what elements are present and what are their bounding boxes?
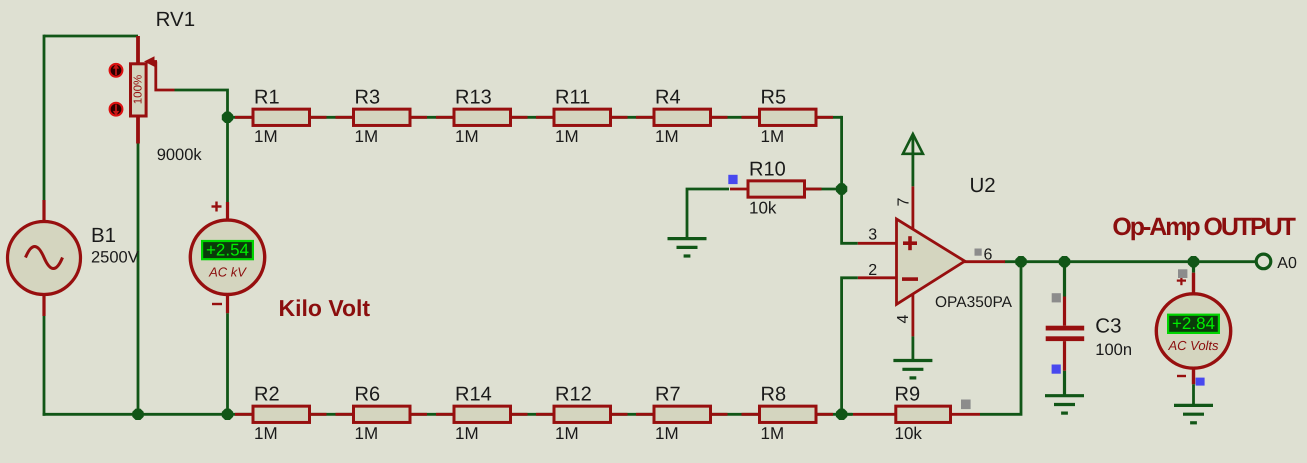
svg-text:R11: R11 [555, 87, 590, 109]
svg-text:R4: R4 [655, 87, 681, 109]
label U2 [970, 174, 996, 197]
value OPA350PA [935, 294, 1013, 311]
svg-text:10k: 10k [895, 424, 923, 443]
junction node RV1-rail [132, 409, 143, 420]
svg-text:1M: 1M [555, 127, 579, 146]
wire R9 left [842, 413, 853, 416]
svg-text:R14: R14 [455, 384, 492, 406]
pin number 7 [896, 197, 913, 206]
pin number 6 [984, 247, 993, 264]
wire top row base [228, 116, 842, 119]
svg-text:Kilo Volt: Kilo Volt [279, 295, 371, 321]
svg-text:1M: 1M [761, 424, 785, 443]
svg-text:R7: R7 [655, 384, 681, 406]
label A0 [1277, 255, 1297, 272]
op-amp minus input mark [902, 277, 918, 281]
wire R5 to R10 node [840, 116, 843, 189]
svg-text:9000k: 9000k [157, 146, 203, 164]
resistor R9 10k [853, 384, 980, 443]
wire C3 bottom [1063, 341, 1066, 396]
probe marker gray volt meter [1178, 269, 1187, 278]
svg-text:+2.84: +2.84 [1172, 314, 1215, 333]
wire kV meter bottom [226, 295, 229, 415]
svg-text:R6: R6 [355, 384, 381, 406]
ground below C3 [1045, 396, 1084, 413]
junction node C3 [1059, 256, 1070, 267]
svg-text:2: 2 [868, 262, 877, 279]
svg-text:R8: R8 [761, 384, 787, 406]
terminal A0 [1256, 254, 1271, 269]
probe marker blue C3 [1052, 365, 1061, 374]
svg-text:1M: 1M [254, 127, 278, 146]
probe marker gray R9 [961, 400, 971, 410]
label RV1 [156, 8, 196, 31]
resistor R2 1M [235, 384, 327, 443]
svg-text:2500V: 2500V [91, 249, 139, 267]
value 9000k [157, 146, 203, 164]
svg-text:3: 3 [868, 227, 877, 244]
resistor R5 1M [742, 87, 834, 146]
wire pin2 stub [858, 276, 897, 279]
resistor R7 1M [636, 384, 728, 443]
resistor R4 1M [636, 87, 728, 146]
svg-text:1M: 1M [655, 424, 679, 443]
wire volt meter bottom [1192, 369, 1195, 406]
svg-text:R9: R9 [895, 384, 921, 406]
potentiometer RV1 [131, 36, 147, 144]
volt meter plus sign [1177, 276, 1186, 285]
wire top rail [44, 35, 138, 200]
wire power stem [912, 136, 915, 186]
wire opamp V+ pin [912, 186, 915, 230]
resistor R12 1M [536, 384, 628, 443]
resistor R14 1M [436, 384, 528, 443]
svg-text:+2.54: +2.54 [206, 241, 249, 260]
label B1 [91, 224, 116, 247]
ground below R10 [668, 239, 707, 256]
op-amp U2 triangle [897, 219, 965, 304]
wire kV meter top [226, 117, 229, 220]
wire pin2 to bottom rail [842, 278, 858, 415]
label Kilo Volt [279, 295, 371, 321]
battery B1 AC source [8, 200, 81, 316]
wire volt meter top [1192, 262, 1195, 294]
volt meter minus sign [1177, 375, 1186, 377]
svg-text:RV1: RV1 [156, 8, 196, 31]
junction node wiper-R1 [222, 112, 233, 123]
junction node R5-R10-pin3 [836, 183, 847, 194]
pin number 4 [895, 314, 912, 323]
RV1 down button [110, 103, 123, 116]
wire R10 node to pin3 [842, 189, 858, 243]
RV1 up button [110, 64, 123, 77]
svg-text:Op-Amp OUTPUT: Op-Amp OUTPUT [1112, 213, 1296, 241]
junction node volt meter [1188, 256, 1199, 267]
svg-text:C3: C3 [1095, 315, 1121, 338]
svg-text:6: 6 [984, 247, 993, 264]
svg-text:R2: R2 [254, 384, 280, 406]
svg-text:1M: 1M [555, 424, 579, 443]
wire opamp V- pin [912, 295, 915, 337]
wire R9 right to output [980, 262, 1021, 415]
wire left rail lower [43, 316, 46, 416]
wire opamp gnd stem [912, 336, 915, 360]
svg-text:OPA350PA: OPA350PA [935, 294, 1013, 311]
power arrow V+ [903, 134, 923, 154]
svg-text:100%: 100% [133, 75, 145, 104]
op-amp plus input mark [903, 236, 917, 250]
value 2500V [91, 249, 139, 267]
svg-text:100n: 100n [1095, 341, 1132, 359]
value 100n [1095, 341, 1132, 359]
ground below opamp [893, 361, 932, 378]
wire C3 top [1063, 262, 1066, 326]
svg-text:1M: 1M [455, 127, 479, 146]
svg-text:B1: B1 [91, 224, 116, 247]
wire R10 left [687, 189, 729, 238]
svg-text:1M: 1M [655, 127, 679, 146]
svg-text:R3: R3 [355, 87, 381, 109]
svg-text:1M: 1M [761, 127, 785, 146]
kV meter [190, 220, 264, 294]
wire RV1 bottom to rail [137, 144, 140, 415]
resistor R3 1M [336, 87, 428, 146]
wire bottom row base [235, 413, 852, 416]
wire opamp output [1005, 260, 1257, 263]
resistor R13 1M [436, 87, 528, 146]
svg-text:R1: R1 [254, 87, 280, 109]
probe marker gray pin6 [975, 249, 982, 256]
probe marker gray C3 [1052, 293, 1061, 302]
junction node R8-R9-pin2 [836, 409, 847, 420]
svg-text:7: 7 [896, 197, 913, 206]
kV meter minus sign [212, 303, 222, 305]
junction node meter-rail [222, 409, 233, 420]
resistor R11 1M [536, 87, 628, 146]
junction node pin6-feedback [1015, 256, 1026, 267]
svg-text:R13: R13 [455, 87, 492, 109]
probe marker blue R10 [728, 175, 737, 184]
svg-text:1M: 1M [355, 127, 379, 146]
volt meter [1156, 294, 1230, 368]
capacitor C3 [1046, 326, 1085, 341]
ground below volt meter [1174, 405, 1213, 422]
wire bottom rail [43, 413, 235, 416]
pin number 3 [868, 227, 877, 244]
wire R10 right [806, 188, 842, 191]
svg-text:1M: 1M [455, 424, 479, 443]
svg-text:A0: A0 [1277, 255, 1297, 272]
svg-text:U2: U2 [970, 174, 996, 197]
wire RV1 wiper [156, 62, 228, 118]
svg-text:R10: R10 [749, 158, 786, 180]
svg-text:R12: R12 [555, 384, 592, 406]
resistor R6 1M [336, 384, 428, 443]
svg-text:R5: R5 [761, 87, 787, 109]
svg-text:AC Volts: AC Volts [1167, 338, 1219, 353]
RV1 wiper arrowhead [144, 56, 157, 66]
resistor R8 1M [742, 384, 834, 443]
svg-text:10k: 10k [749, 199, 777, 218]
kV meter plus sign [212, 202, 222, 212]
svg-text:4: 4 [895, 314, 912, 323]
svg-text:AC kV: AC kV [208, 264, 247, 279]
svg-text:1M: 1M [254, 424, 278, 443]
wire pin6 stub [964, 260, 1006, 263]
resistor R1 1M [235, 87, 327, 146]
wire pin3 stub [858, 242, 897, 245]
svg-text:1M: 1M [355, 424, 379, 443]
probe marker blue volt meter [1196, 378, 1205, 386]
label C3 [1095, 315, 1121, 338]
pin number 2 [868, 262, 877, 279]
label Op-Amp OUTPUT [1112, 213, 1296, 241]
resistor R10 10k [730, 158, 822, 217]
